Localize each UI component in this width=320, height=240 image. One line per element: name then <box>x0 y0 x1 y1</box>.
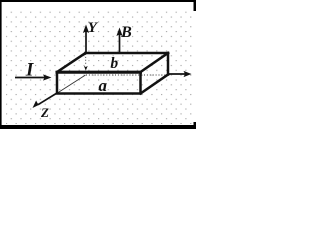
svg-text:Z: Z <box>40 105 49 120</box>
svg-text:a: a <box>99 76 108 95</box>
svg-text:B: B <box>120 24 132 41</box>
svg-text:b: b <box>110 55 118 72</box>
svg-text:I: I <box>25 60 34 80</box>
